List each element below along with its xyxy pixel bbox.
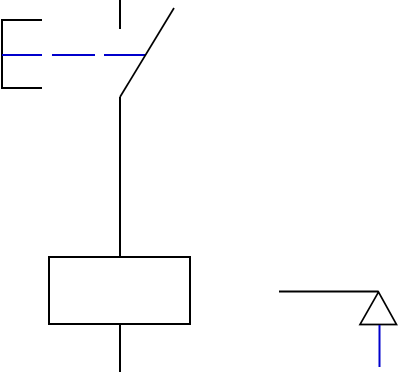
- arrow head (triangle): [360, 292, 397, 325]
- wire from switch to box: [119, 97, 121, 257]
- wire to arrow: [279, 291, 378, 293]
- component box: [49, 257, 190, 324]
- blue wire below arrow: [379, 325, 381, 367]
- mechanical link (blue dashed line): [2, 54, 145, 56]
- wire below box: [119, 324, 121, 372]
- top terminal wire: [119, 0, 121, 29]
- switch contact arm: [120, 8, 174, 97]
- roller/bracket actuator: [2, 20, 42, 88]
